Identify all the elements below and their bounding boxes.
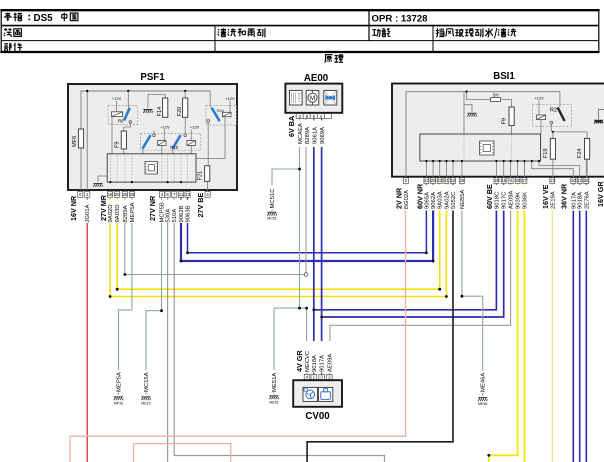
svg-text:MECVC: MECVC: [305, 350, 311, 372]
svg-text:8289A: 8289A: [123, 205, 129, 222]
svg-text:R2: R2: [550, 108, 557, 114]
svg-text:BG02A: BG02A: [404, 190, 410, 209]
svg-text:AE09A: AE09A: [327, 354, 333, 372]
svg-text:9069A: 9069A: [320, 127, 326, 144]
svg-text:27V MR: 27V MR: [99, 194, 108, 221]
svg-text:CV00: CV00: [305, 411, 329, 422]
svg-text:MC51C: MC51C: [270, 188, 276, 209]
svg-text:9065A: 9065A: [424, 192, 430, 209]
svg-text:9A03A: 9A03A: [438, 191, 444, 209]
svg-text:9039K: 9039K: [516, 192, 522, 209]
svg-text:DS5: DS5: [34, 13, 54, 24]
svg-text:27V NR: 27V NR: [148, 195, 157, 221]
svg-text:60V BE: 60V BE: [485, 184, 494, 209]
svg-text:5052C: 5052C: [451, 191, 457, 209]
svg-text:+12V: +12V: [160, 125, 170, 130]
svg-text:13: 13: [185, 192, 190, 197]
svg-text:MCP5B: MCP5B: [160, 202, 166, 222]
svg-text:PSF1: PSF1: [140, 72, 165, 83]
svg-text:60V NR: 60V NR: [416, 183, 425, 209]
svg-text:530A: 530A: [166, 209, 172, 223]
svg-text:16V GR: 16V GR: [596, 181, 604, 207]
svg-text:2V NR: 2V NR: [395, 187, 404, 209]
svg-text:SH: SH: [493, 93, 499, 98]
svg-text:AE00: AE00: [304, 73, 328, 84]
svg-text:+12V: +12V: [112, 96, 122, 101]
svg-text:OPR : 13728: OPR : 13728: [372, 13, 429, 24]
svg-text:9A03D: 9A03D: [115, 204, 121, 222]
svg-text:18: 18: [494, 178, 499, 183]
svg-text:NEB5A: NEB5A: [460, 190, 466, 209]
svg-text:9018A: 9018A: [312, 355, 318, 372]
svg-text:16: 16: [501, 178, 506, 183]
svg-text:25: 25: [431, 178, 436, 183]
svg-text:12: 12: [577, 178, 582, 183]
svg-text:ME46A: ME46A: [481, 373, 487, 392]
svg-text:9036K: 9036K: [522, 192, 528, 209]
svg-text:20: 20: [115, 192, 120, 197]
svg-text:27V BE: 27V BE: [196, 193, 205, 218]
svg-text:9062B: 9062B: [179, 205, 185, 222]
svg-text:M: M: [310, 96, 315, 102]
svg-text:MCAEA: MCAEA: [298, 123, 304, 144]
svg-text:F19: F19: [543, 149, 549, 159]
svg-text:41: 41: [444, 178, 449, 183]
svg-text:16V NR: 16V NR: [69, 195, 78, 221]
svg-text:9A02A: 9A02A: [444, 191, 450, 209]
svg-text:JG01A: JG01A: [85, 204, 91, 222]
svg-text:18: 18: [108, 192, 113, 197]
svg-text:F9: F9: [115, 141, 121, 148]
svg-text:MC51: MC51: [267, 217, 277, 221]
svg-text:BSI1: BSI1: [493, 71, 515, 82]
svg-text:36V NR: 36V NR: [560, 183, 569, 209]
svg-text:22: 22: [424, 178, 429, 183]
svg-text:13: 13: [550, 178, 555, 183]
svg-text:MC15A: MC15A: [144, 372, 150, 392]
svg-text:26: 26: [460, 178, 465, 183]
svg-text:MF6: MF6: [72, 136, 78, 147]
svg-text:4V GR: 4V GR: [295, 350, 304, 372]
svg-text:R6: R6: [118, 119, 124, 124]
svg-text:9018A: 9018A: [578, 192, 584, 209]
svg-text:510A: 510A: [172, 209, 178, 223]
svg-text:2E19A: 2E19A: [550, 191, 556, 209]
svg-text:ME51: ME51: [269, 401, 278, 405]
svg-text:29: 29: [515, 178, 520, 183]
svg-text:16V VE: 16V VE: [541, 184, 550, 209]
svg-text:R10: R10: [170, 145, 178, 150]
svg-text:10: 10: [571, 178, 576, 183]
svg-text:+12V: +12V: [225, 96, 235, 101]
svg-text:28: 28: [130, 192, 135, 197]
svg-text:AE09A: AE09A: [509, 191, 515, 209]
svg-text:MEP5A: MEP5A: [130, 202, 136, 222]
svg-text:R11: R11: [217, 108, 225, 113]
svg-text:+12V: +12V: [534, 96, 544, 101]
svg-text:F24: F24: [577, 149, 583, 159]
svg-text:6V BA: 6V BA: [287, 116, 296, 137]
svg-text:8289A: 8289A: [305, 127, 311, 144]
svg-text:F21: F21: [197, 171, 203, 181]
svg-text:9017C: 9017C: [502, 191, 508, 209]
svg-text:F20: F20: [177, 107, 183, 117]
svg-text:9017A: 9017A: [320, 355, 326, 372]
svg-text:2E76A: 2E76A: [584, 191, 590, 209]
svg-text:9061A: 9061A: [312, 127, 318, 144]
svg-text:F14: F14: [157, 107, 163, 117]
svg-text:9063B: 9063B: [186, 205, 192, 222]
svg-text:9A02D: 9A02D: [108, 204, 114, 222]
svg-text:26: 26: [123, 192, 128, 197]
svg-text:9017A: 9017A: [571, 192, 577, 209]
svg-text:ME51A: ME51A: [272, 373, 278, 392]
svg-text:11: 11: [179, 192, 184, 197]
svg-text:ME46: ME46: [478, 402, 487, 406]
svg-text:43: 43: [437, 178, 442, 183]
svg-text:9018C: 9018C: [494, 191, 500, 209]
svg-text:26: 26: [584, 178, 589, 183]
svg-text:F9: F9: [502, 118, 508, 125]
svg-text:16: 16: [451, 178, 456, 183]
svg-text:MP16: MP16: [114, 402, 123, 406]
svg-text:+12V: +12V: [190, 125, 200, 130]
svg-text:ME15: ME15: [141, 402, 150, 406]
svg-text:MEP5A: MEP5A: [116, 372, 122, 392]
svg-text:27: 27: [522, 178, 527, 183]
svg-text:9062A: 9062A: [431, 192, 437, 209]
